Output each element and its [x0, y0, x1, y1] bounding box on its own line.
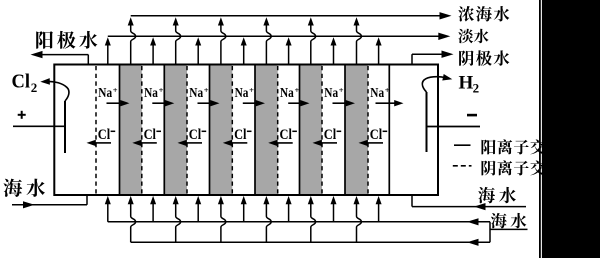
- black sidebar: [542, 0, 600, 258]
- anion exchange membrane (dashed) 4: [231, 66, 233, 194]
- anion exchange membrane (dashed) 7: [367, 66, 369, 194]
- concentrate channel (gray) 6: [345, 66, 368, 195]
- concentrate feed arrow 6 (hops manifold A): [357, 203, 362, 242]
- plus terminal: [18, 114, 26, 116]
- cation exchange membrane (solid) 7: [388, 66, 390, 195]
- anode wire: [13, 125, 65, 127]
- concentrate feed arrow 1 (hops manifold A): [131, 203, 136, 242]
- svg-text:Cl: Cl: [144, 127, 156, 143]
- svg-text:Cl: Cl: [189, 127, 201, 143]
- dilute feed arrow 2: [152, 203, 154, 222]
- Cl- arrow 5: [277, 142, 293, 144]
- Cl- arrow 4: [232, 142, 248, 144]
- Na+ arrow 4: [243, 102, 257, 104]
- minus terminal: [467, 114, 477, 117]
- svg-text:2: 2: [31, 80, 38, 95]
- concentrate feed arrow 4 (hops manifold A): [266, 203, 271, 242]
- concentrate channel (gray) 1: [120, 66, 142, 195]
- label: seawater (right inlet 1): [478, 187, 495, 203]
- cathode electrode: [426, 92, 428, 152]
- dilute outlet arrow 6: [333, 44, 335, 64]
- svg-text:Na: Na: [235, 86, 249, 101]
- legend text: cation exchange membrane: [481, 140, 495, 155]
- concentrate channel (gray) 3: [210, 66, 233, 195]
- legend: cation exchange membrane sample line: [454, 144, 471, 146]
- Na+ arrow 3: [198, 102, 212, 104]
- concentrate outlet arrow 6 (hops fresh line): [357, 25, 362, 64]
- cation exchange membrane (solid) 2: [163, 66, 165, 195]
- dilute outlet arrow 1: [107, 44, 109, 64]
- label: seawater (left inlet): [3, 179, 22, 197]
- anion exchange membrane (dashed) 1: [95, 66, 97, 194]
- label: fresh water: [458, 29, 473, 43]
- svg-text:Cl: Cl: [234, 127, 246, 143]
- label: seawater (right inlet 2): [491, 213, 507, 228]
- electrolysis cell body: [54, 65, 438, 196]
- Cl- arrow 1: [95, 142, 111, 144]
- svg-text:2: 2: [473, 81, 480, 96]
- svg-text:Na: Na: [98, 86, 112, 101]
- svg-text:H: H: [459, 72, 474, 93]
- Cl- arrow 2: [141, 142, 157, 144]
- cation exchange membrane (solid) 1: [119, 66, 121, 195]
- anode electrode: [64, 101, 66, 153]
- concentrate feed arrow 3 (hops manifold A): [221, 203, 226, 242]
- Cl- arrow 6: [321, 142, 337, 144]
- Cl- arrow 7: [367, 142, 383, 144]
- Cl- arrow 3: [186, 142, 202, 144]
- dilute outlet arrow 2: [152, 44, 154, 64]
- svg-text:+: +: [204, 85, 209, 95]
- concentrate channel (gray) 5: [300, 66, 323, 195]
- dilute feed arrow 3: [197, 203, 199, 222]
- svg-text:Cl: Cl: [324, 127, 336, 143]
- H2 evolution arrow: [422, 77, 445, 92]
- concentrate feed arrow 2 (hops manifold A): [176, 203, 181, 242]
- svg-text:Cl: Cl: [280, 127, 292, 143]
- concentrate outlet arrow 1 (hops fresh line): [131, 25, 136, 64]
- svg-text:Na: Na: [280, 86, 294, 101]
- black sidebar thin line: [539, 0, 541, 258]
- cathode wire: [427, 126, 481, 128]
- label: concentrated seawater: [458, 6, 474, 22]
- anion exchange membrane (dashed) 6: [321, 66, 323, 194]
- svg-text:+: +: [385, 85, 390, 95]
- svg-text:Cl: Cl: [12, 72, 31, 93]
- svg-text:+: +: [249, 85, 254, 95]
- concentrate outlet arrow 3 (hops fresh line): [221, 25, 226, 64]
- seawater inlet line (anode side): [12, 204, 87, 206]
- dilute feed arrow 6: [333, 203, 335, 222]
- svg-text:+: +: [159, 85, 164, 95]
- concentrated seawater manifold (upper): [131, 15, 440, 17]
- label: cathode water: [459, 50, 474, 65]
- dilute outlet arrow 4: [243, 44, 245, 64]
- Na+ arrow 1: [107, 102, 122, 104]
- cation exchange membrane (solid) 6: [344, 66, 346, 195]
- anion exchange membrane (dashed) 2: [141, 66, 143, 194]
- manifold connector riser: [489, 222, 491, 243]
- svg-text:Na: Na: [324, 86, 338, 101]
- seawater manifold B (lower): [131, 241, 490, 243]
- concentrate feed arrow 5 (hops manifold A): [311, 203, 316, 242]
- svg-text:+: +: [339, 85, 344, 95]
- dilute feed arrow 5: [288, 203, 290, 222]
- cation exchange membrane (solid) 3: [209, 66, 211, 195]
- svg-text:Cl: Cl: [98, 127, 110, 143]
- dilute feed arrow 7: [378, 203, 380, 222]
- seawater inlet line 2 (to manifolds): [490, 228, 528, 230]
- anode water outlet pipe: [87, 55, 89, 65]
- dilute outlet arrow 5: [288, 44, 290, 64]
- anion exchange membrane (dashed) 3: [186, 66, 188, 194]
- dilute outlet arrow 7: [378, 44, 380, 64]
- concentrate outlet arrow 2 (hops fresh line): [176, 25, 181, 64]
- anion exchange membrane (dashed) 5: [277, 66, 279, 194]
- svg-text:+: +: [113, 85, 118, 95]
- legend: anion exchange membrane sample line: [453, 165, 472, 167]
- cathode water outlet pipe: [411, 54, 413, 64]
- Cl2 evolution arrow: [48, 81, 69, 101]
- concentrate channel (gray) 2: [164, 66, 187, 195]
- cation exchange membrane (solid) 5: [299, 66, 301, 195]
- seawater manifold A (upper): [108, 221, 490, 223]
- dilute feed arrow 1: [107, 203, 109, 222]
- concentrate outlet arrow 5 (hops fresh line): [311, 25, 316, 64]
- svg-text:Na: Na: [189, 86, 203, 101]
- concentrate channel (gray) 4: [255, 66, 278, 195]
- dilute feed arrow 4: [243, 203, 245, 222]
- concentrate outlet arrow 4 (hops fresh line): [266, 25, 271, 64]
- svg-text:Na: Na: [144, 86, 158, 101]
- label: anode water (yang ji shui): [36, 31, 53, 49]
- svg-text:Cl: Cl: [370, 127, 382, 143]
- Na+ arrow 7: [376, 102, 396, 104]
- seawater inlet line 1 (to cathode compartment): [412, 206, 526, 208]
- dilute outlet arrow 3: [197, 44, 199, 64]
- legend text: anion exchange membrane: [482, 161, 496, 176]
- Na+ arrow 2: [152, 102, 166, 104]
- fresh water manifold (lower): [108, 35, 439, 37]
- Na+ arrow 5: [288, 102, 301, 104]
- Na+ arrow 6: [333, 102, 347, 104]
- cation exchange membrane (solid) 4: [254, 66, 256, 195]
- svg-text:Na: Na: [370, 86, 384, 101]
- svg-text:+: +: [295, 85, 300, 95]
